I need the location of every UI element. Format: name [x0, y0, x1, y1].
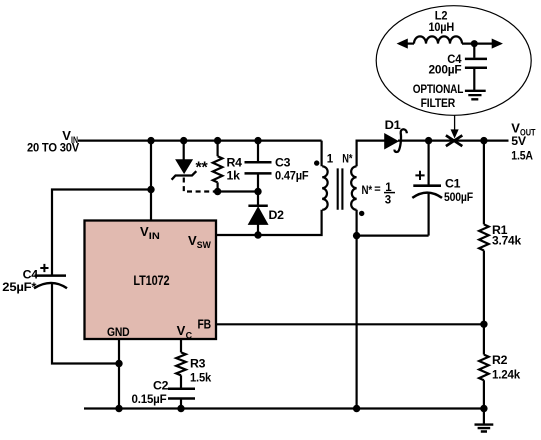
svg-text:3: 3: [385, 194, 391, 206]
inductor L2 left arrowhead: [398, 39, 408, 48]
wire C2 bottom stub: [180, 400, 182, 409]
node secondary bottom / C1 return junction: [353, 232, 360, 239]
svg-text:V: V: [511, 120, 520, 135]
svg-text:OPTIONAL: OPTIONAL: [413, 82, 464, 96]
wire VC pin stub: [180, 339, 182, 352]
wire ground rail: [84, 407, 484, 409]
inductor L2 coil: [414, 36, 462, 43]
svg-text:=: =: [374, 183, 380, 195]
wire secondary top to D1: [357, 141, 385, 167]
node ground rail GND pin: [115, 405, 122, 412]
transformer secondary phasing dot: [359, 211, 364, 216]
node ground rail right: [480, 405, 487, 412]
wire primary top feed: [321, 141, 323, 167]
transformer secondary winding: [351, 166, 356, 210]
svg-text:IN: IN: [149, 231, 160, 241]
svg-text:V: V: [177, 323, 186, 338]
svg-text:R3: R3: [190, 357, 206, 371]
svg-text:R2: R2: [492, 353, 508, 367]
svg-text:V: V: [188, 233, 197, 248]
wire R2 top stub: [483, 324, 485, 354]
svg-text:SW: SW: [197, 240, 211, 250]
wire D2 top stub: [257, 192, 259, 205]
svg-text:5V: 5V: [511, 134, 527, 148]
svg-text:FILTER: FILTER: [421, 96, 456, 110]
node R4 top junction: [214, 137, 221, 144]
wire R4 bottom to C3 bottom: [218, 190, 258, 192]
wire C4 filter bottom stub: [473, 69, 475, 90]
svg-text:LT1072: LT1072: [133, 273, 169, 288]
capacitor C1 plus sign: [415, 171, 424, 180]
wire R4 top stub: [217, 141, 219, 157]
svg-text:C3: C3: [275, 155, 291, 169]
node C4 branch junction: [147, 186, 154, 193]
wire VIN vertical to IC: [150, 140, 152, 221]
wire dashed zener to R4 bottom: [184, 178, 216, 192]
node GND pin junction: [115, 360, 122, 367]
wire R3 to C2: [180, 375, 182, 387]
svg-text:D2: D2: [269, 208, 285, 222]
IC U1 LT1072 body: [85, 221, 217, 340]
svg-text:1k: 1k: [227, 168, 241, 182]
wire zener feed: [183, 141, 185, 161]
inductor L2 arrow line left: [399, 42, 414, 44]
wire C3 top stub: [257, 141, 259, 161]
svg-text:1.5k: 1.5k: [190, 370, 211, 384]
node R1 top junction: [480, 137, 487, 144]
svg-text:FB: FB: [198, 317, 212, 332]
capacitor C3 plates: [245, 162, 272, 173]
capacitor C4 25uF top plate: [35, 274, 67, 277]
arrow from filter to X line: [454, 115, 456, 131]
capacitor C2 plates: [168, 389, 195, 399]
node C3 top junction: [254, 137, 261, 144]
zener diode (optional, **) triangle: [176, 160, 192, 173]
svg-text:R4: R4: [227, 155, 243, 169]
capacitor C4 filter plates: [465, 59, 487, 68]
node ground rail C2: [177, 405, 184, 412]
resistor R2: [479, 355, 489, 381]
wire C1 bottom stub: [428, 193, 430, 235]
node zener top junction: [180, 137, 187, 144]
wire R1 bottom to FB node: [483, 251, 485, 325]
wire C1 top stub: [428, 141, 430, 186]
svg-text:C4: C4: [23, 267, 39, 281]
zener diode bent cathode bar: [172, 171, 197, 180]
wire D1 to output: [398, 140, 509, 142]
svg-text:3.74k: 3.74k: [492, 234, 521, 248]
diode D1 triangle: [385, 134, 398, 149]
wire R4 bottom stub: [217, 182, 219, 191]
wire C4 filter top stub: [473, 44, 475, 58]
wire GND pin down to ground rail: [118, 339, 120, 409]
X cut mark on output wire: [446, 135, 462, 146]
svg-text:**: **: [196, 160, 209, 177]
capacitor C1 top plate: [413, 184, 441, 187]
resistor R1 wire top: [483, 141, 485, 225]
capacitor C1 curved plate: [412, 193, 442, 198]
diode D2 cathode bar: [248, 204, 267, 207]
capacitor C4 25uF plus sign: [40, 264, 48, 272]
wire FB from IC to divider: [216, 323, 484, 325]
resistor R1: [479, 224, 489, 250]
svg-text:1: 1: [327, 154, 334, 166]
node VSW rail / D2 junction: [254, 231, 261, 238]
wire top VIN rail: [78, 140, 322, 142]
transformer primary phasing dot: [314, 160, 319, 165]
inductor L2 arrow line right: [462, 42, 501, 44]
ground symbol bars: [475, 425, 494, 432]
ground symbol filter: [465, 91, 486, 100]
svg-text:1.24k: 1.24k: [492, 367, 520, 381]
arrow from filter to X head: [451, 130, 458, 137]
resistor R3: [176, 352, 186, 375]
svg-text:25µF*: 25µF*: [2, 280, 36, 294]
ground symbol stub: [483, 409, 485, 424]
wire C3 bottom stub: [257, 175, 259, 192]
wire C1 return: [357, 235, 429, 237]
node C3/D2 junction: [254, 188, 261, 195]
capacitor C4 25uF curved plate: [34, 283, 67, 288]
diode D2 triangle: [249, 207, 268, 224]
transformer core: [338, 168, 343, 209]
node R4 bottom junction: [214, 188, 221, 195]
svg-text:C2: C2: [153, 378, 169, 392]
svg-text:D1: D1: [385, 118, 401, 132]
wire to C4 input cap: [52, 190, 151, 275]
svg-text:0.47µF: 0.47µF: [275, 168, 309, 182]
node L2 / C4 junction: [471, 40, 478, 47]
svg-text:GND: GND: [107, 325, 130, 339]
svg-text:N*: N*: [362, 183, 373, 197]
svg-text:N*: N*: [342, 152, 352, 166]
wire D2 bottom stub: [257, 224, 259, 235]
wire R2 bottom stub: [483, 380, 485, 408]
resistor R4: [213, 156, 223, 182]
svg-text:0.15µF: 0.15µF: [132, 392, 168, 406]
optional filter ellipse: [376, 6, 531, 116]
wire VSW rail to primary bottom: [216, 210, 322, 235]
svg-text:500µF: 500µF: [444, 190, 474, 204]
svg-text:10µH: 10µH: [429, 20, 455, 34]
node FB junction: [480, 321, 487, 328]
wire C4 bottom to GND pin: [52, 284, 119, 364]
svg-text:1.5A: 1.5A: [511, 148, 533, 162]
svg-text:20 TO 30V: 20 TO 30V: [27, 140, 80, 154]
node ground rail secondary: [353, 405, 360, 412]
inductor L2 right arrowhead: [492, 39, 502, 48]
wire secondary bottom to ground rail: [356, 210, 358, 409]
svg-text:C: C: [186, 330, 193, 340]
diode D1 S-curve cathode: [395, 129, 407, 152]
svg-text:V: V: [140, 224, 149, 239]
node C1 top junction: [425, 137, 432, 144]
svg-text:C1: C1: [445, 177, 461, 191]
svg-text:200µF: 200µF: [429, 63, 463, 77]
node VIN rail / IC VIN junction: [147, 137, 154, 144]
transformer primary winding: [322, 166, 327, 210]
